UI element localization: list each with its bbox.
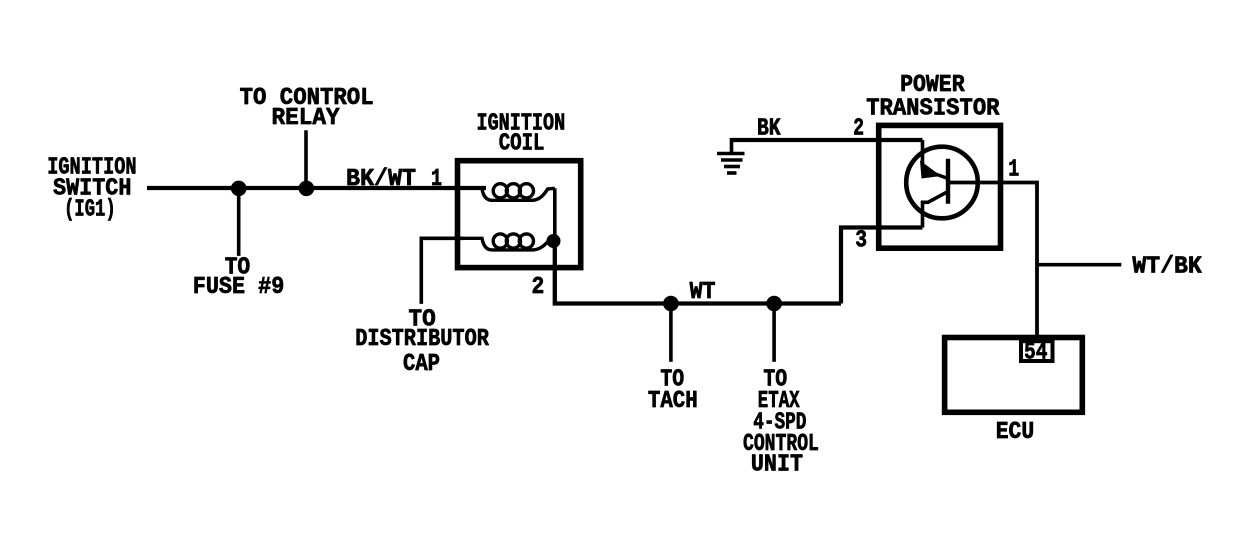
ECU box — [945, 338, 1083, 413]
svg-text:UNIT: UNIT — [751, 452, 803, 479]
node: TO CONTROL RELAY label — [240, 85, 374, 132]
svg-text:2: 2 — [853, 115, 864, 142]
junction: fuse #9 tap — [231, 181, 247, 197]
pin 54 box — [1021, 341, 1053, 361]
svg-text:TACH: TACH — [648, 388, 698, 415]
wire: ground to transistor pin 2 — [732, 138, 923, 142]
wire: stub up to control relay — [304, 130, 308, 188]
ignition coil box — [458, 161, 581, 268]
wire: stub down to tach — [669, 304, 673, 362]
junction: coil secondary / pin 2 node — [547, 234, 561, 248]
svg-text:ECU: ECU — [996, 419, 1034, 446]
wire: transistor base lead out pin 1 — [948, 183, 1037, 337]
svg-text:BK/WT: BK/WT — [346, 166, 416, 193]
inductor: coil primary winding — [482, 184, 555, 201]
svg-text:54: 54 — [1024, 340, 1048, 367]
svg-text:1: 1 — [431, 166, 442, 193]
svg-text:CAP: CAP — [403, 351, 440, 378]
junction: ETAX control unit tap — [766, 296, 782, 312]
wire: stub down to fuse #9 — [237, 188, 241, 256]
svg-text:DISTRIBUTOR: DISTRIBUTOR — [355, 326, 489, 353]
power transistor box — [879, 125, 1001, 248]
wire: WT/BK branch — [1037, 263, 1121, 267]
wire: coil pin 2 down and right (WT bus) — [555, 241, 841, 304]
node: TO ETAX 4-SPD CONTROL UNIT label — [743, 367, 819, 479]
node: IGNITION SWITCH (IG1) label — [47, 155, 136, 224]
junction: control relay tap — [299, 181, 315, 197]
wire: distributor cap branch — [421, 238, 463, 304]
svg-text:WT/BK: WT/BK — [1132, 254, 1202, 281]
wire: link from primary to secondary node — [553, 188, 557, 241]
node: IGNITION COIL label — [477, 110, 566, 157]
svg-text:3: 3 — [855, 228, 867, 255]
svg-text:2: 2 — [532, 274, 545, 301]
node: TO TACH label — [648, 367, 698, 416]
junction: tach tap — [663, 296, 679, 312]
wire: WT bus riser to transistor pin 3 — [841, 228, 923, 304]
svg-text:1: 1 — [1008, 156, 1019, 183]
node: POWER TRANSISTOR label — [866, 72, 1000, 123]
wire: ignition switch feed (BK/WT bus) — [147, 186, 486, 190]
svg-text:(IG1): (IG1) — [64, 196, 116, 223]
inductor: coil secondary winding — [463, 234, 554, 250]
svg-text:TRANSISTOR: TRANSISTOR — [866, 96, 1000, 123]
svg-text:RELAY: RELAY — [272, 105, 341, 132]
wire: stub down to ETAX control unit — [772, 304, 776, 362]
svg-text:FUSE #9: FUSE #9 — [193, 274, 284, 301]
transistor Q1 (PNP in circle) — [906, 140, 978, 228]
svg-text:COIL: COIL — [499, 130, 545, 157]
node: TO FUSE #9 label — [193, 255, 284, 301]
node: TO DISTRIBUTOR CAP label — [355, 307, 489, 379]
svg-text:WT: WT — [690, 279, 716, 306]
ground symbol — [717, 138, 745, 173]
